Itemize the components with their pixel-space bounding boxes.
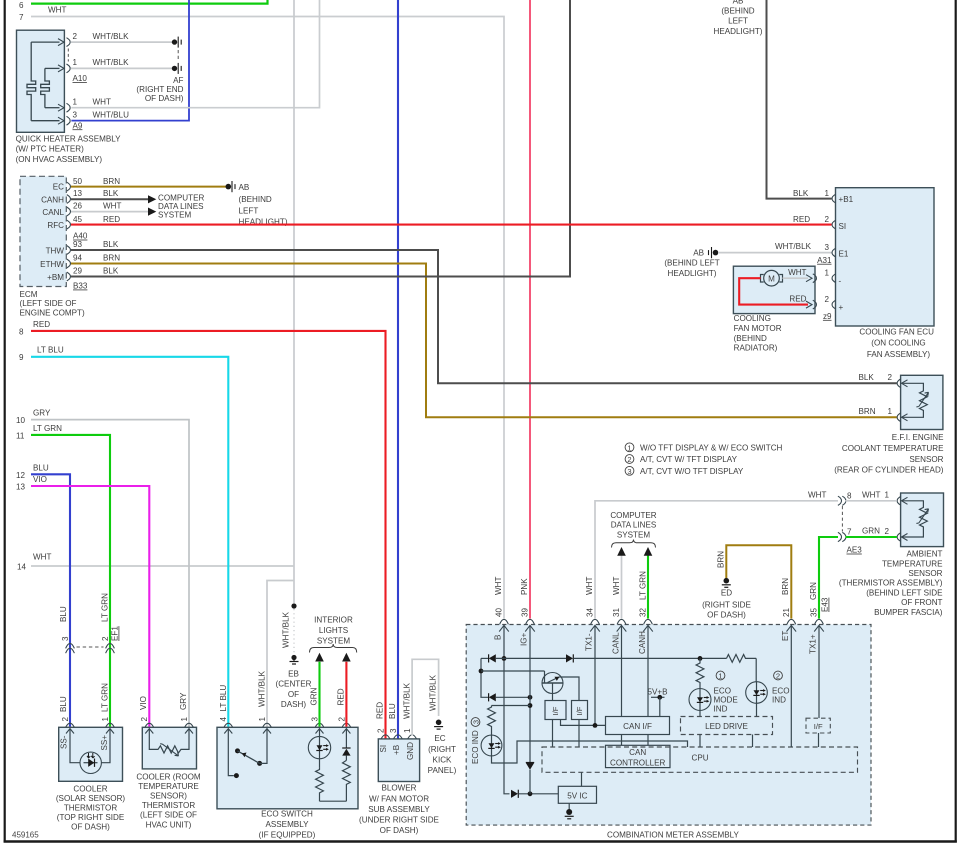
svg-text:WHT: WHT <box>585 577 594 595</box>
svg-text:EF1: EF1 <box>111 626 120 641</box>
svg-text:CANL: CANL <box>611 632 620 654</box>
svg-text:MODE: MODE <box>714 696 739 705</box>
wire 7 WHT (row 7, to combination meter pin 40) <box>19 6 504 619</box>
svg-text:1: 1 <box>101 717 110 722</box>
svg-text:7: 7 <box>847 528 852 537</box>
splice AF lower (WHT/BLK) <box>136 50 183 103</box>
ECO switch assembly box <box>217 727 358 839</box>
meter internal: I/F box 1 <box>545 701 606 748</box>
svg-text:(ON HVAC ASSEMBLY): (ON HVAC ASSEMBLY) <box>16 155 103 164</box>
splice AB (BEHIND LEFT HEADLIGHT) <box>226 181 288 227</box>
svg-text:3: 3 <box>73 110 78 119</box>
svg-text:ECO SWITCH: ECO SWITCH <box>261 809 313 818</box>
svg-text:FAN MOTOR: FAN MOTOR <box>734 324 782 333</box>
svg-text:(UNDER RIGHT SIDE: (UNDER RIGHT SIDE <box>359 816 439 825</box>
svg-text:ETHW: ETHW <box>40 260 64 269</box>
note 3 A/T CVT W/O TFT DISPLAY <box>625 466 744 476</box>
svg-text:TEMPERATURE: TEMPERATURE <box>138 782 199 791</box>
svg-text:2: 2 <box>627 455 631 464</box>
wire 12 BLU (row 12, to EF1 pin 3 / cooler SS-) <box>16 463 70 726</box>
svg-text:BLU: BLU <box>33 463 49 472</box>
svg-text:GRY: GRY <box>179 692 188 710</box>
splice AB near E1 <box>664 247 719 278</box>
ECM pin CANH 13 <box>41 189 148 204</box>
svg-text:SI: SI <box>839 222 847 231</box>
svg-text:B: B <box>494 635 503 640</box>
svg-text:BLK: BLK <box>103 267 119 276</box>
svg-text:-: - <box>839 276 842 285</box>
svg-text:INTERIOR: INTERIOR <box>314 615 353 624</box>
meter pin 32 CANH <box>638 607 653 654</box>
svg-text:5V+B: 5V+B <box>648 687 668 696</box>
svg-text:OF DASH): OF DASH) <box>145 94 184 103</box>
ECU pin 2 SI <box>793 215 846 231</box>
svg-text:THW: THW <box>46 246 65 255</box>
coolant sensor pins <box>859 373 908 422</box>
svg-text:2: 2 <box>887 373 892 382</box>
motor M symbol <box>761 270 783 286</box>
svg-text:HVAC UNIT): HVAC UNIT) <box>146 820 192 829</box>
svg-text:CAN: CAN <box>629 748 646 757</box>
meter internal: CANL/CANH verticals into CAN I/F <box>622 626 649 746</box>
cooler pin 2 SS- <box>60 717 75 750</box>
ground EB (CENTER OF DASH) <box>276 611 312 709</box>
svg-text:OF FRONT: OF FRONT <box>901 598 942 607</box>
svg-text:QUICK HEATER ASSEMBLY: QUICK HEATER ASSEMBLY <box>16 134 122 143</box>
svg-text:BUMPER FASCIA): BUMPER FASCIA) <box>874 608 943 617</box>
svg-text:SYSTEM: SYSTEM <box>617 530 651 539</box>
svg-text:ECM: ECM <box>20 290 38 299</box>
room sensor pin 2 (VIO) <box>139 696 153 733</box>
wire BLK THW to coolant temp sensor pin 2 <box>71 250 897 383</box>
inline connector AE3 pin 7 + GRN wire to meter pin 35 <box>819 528 897 619</box>
svg-text:1: 1 <box>824 189 829 198</box>
svg-text:2: 2 <box>337 717 346 722</box>
svg-text:OF DASH): OF DASH) <box>380 826 419 835</box>
svg-text:(SOLAR SENSOR): (SOLAR SENSOR) <box>56 794 126 803</box>
svg-text:OF DASH): OF DASH) <box>71 823 110 832</box>
note 2 A/T CVT W/ TFT DISPLAY <box>625 455 737 465</box>
svg-text:(REAR OF CYLINDER HEAD): (REAR OF CYLINDER HEAD) <box>834 466 944 475</box>
svg-text:BLK: BLK <box>793 189 809 198</box>
svg-text:50: 50 <box>73 177 83 186</box>
svg-text:W/ FAN MOTOR: W/ FAN MOTOR <box>369 794 429 803</box>
pin 3 connector arc (A9) <box>67 110 130 130</box>
svg-text:WHT/BLK: WHT/BLK <box>775 242 812 251</box>
svg-text:GRY: GRY <box>33 409 51 418</box>
wire GRN from ECO pin 3 to interior lights arrow <box>315 653 324 727</box>
E.F.I. engine coolant temperature sensor box <box>834 375 944 474</box>
quick heater assembly label <box>16 134 122 163</box>
meter pin 21 ET <box>781 578 796 641</box>
svg-text:3: 3 <box>61 636 70 641</box>
svg-text:34: 34 <box>586 607 595 617</box>
svg-text:COOLANT TEMPERATURE: COOLANT TEMPERATURE <box>842 444 944 453</box>
meter internal: ECO IND 3 resistor <box>488 706 530 736</box>
svg-text:RADIATOR): RADIATOR) <box>734 344 778 353</box>
svg-text:26: 26 <box>73 202 83 211</box>
svg-text:I/F: I/F <box>814 722 823 731</box>
blower pin 2 SI <box>376 702 390 753</box>
blower w/ fan motor sub assembly box <box>359 739 439 835</box>
svg-text:1: 1 <box>824 268 829 277</box>
svg-text:LT GRN: LT GRN <box>33 424 62 433</box>
svg-text:BRN: BRN <box>859 407 876 416</box>
svg-text:RED: RED <box>376 702 385 719</box>
svg-text:35: 35 <box>810 607 819 617</box>
svg-text:OF DASH): OF DASH) <box>707 611 746 620</box>
svg-text:WHT: WHT <box>788 268 806 277</box>
wire 10 GRY (row 10, to room temp sensor pin 1) <box>16 409 189 727</box>
svg-text:GND: GND <box>406 742 415 760</box>
svg-text:93: 93 <box>73 240 83 249</box>
svg-text:COOLER (ROOM: COOLER (ROOM <box>136 772 201 781</box>
svg-text:4: 4 <box>219 717 228 722</box>
svg-text:32: 32 <box>639 607 648 617</box>
wire RED from RFC to cooling fan ECU SI <box>71 224 832 226</box>
svg-text:DASH): DASH) <box>281 700 306 709</box>
svg-text:94: 94 <box>73 254 83 263</box>
svg-text:AE3: AE3 <box>847 546 863 555</box>
svg-text:3: 3 <box>472 720 481 724</box>
svg-text:HEADLIGHT): HEADLIGHT) <box>667 269 716 278</box>
quick heater assembly box <box>17 30 65 132</box>
svg-text:2: 2 <box>73 32 78 41</box>
inline connector AE3 pin 8 <box>838 491 897 531</box>
wire 13 VIO (row 13, to room temp sensor pin 2) <box>16 475 149 727</box>
svg-text:8: 8 <box>19 328 24 337</box>
wire RED from ECO pin 2 to interior lights arrow <box>342 653 351 727</box>
svg-text:COOLER: COOLER <box>73 784 107 793</box>
PTC heater element 1 <box>27 42 36 121</box>
svg-text:IND: IND <box>772 696 786 705</box>
svg-text:WHT: WHT <box>48 6 66 15</box>
svg-text:2: 2 <box>776 672 780 681</box>
motor WHT wire to ECU minus pin <box>783 268 842 285</box>
svg-text:14: 14 <box>17 562 27 571</box>
svg-text:AMBIENT: AMBIENT <box>907 550 943 559</box>
svg-text:13: 13 <box>73 189 83 198</box>
svg-text:2: 2 <box>61 717 70 722</box>
svg-text:VIO: VIO <box>139 696 148 710</box>
svg-text:7: 7 <box>19 13 24 22</box>
svg-text:WHT: WHT <box>808 490 826 499</box>
svg-text:WHT/BLK: WHT/BLK <box>93 58 130 67</box>
svg-text:31: 31 <box>612 607 621 617</box>
svg-text:A/T, CVT W/O TFT DISPLAY: A/T, CVT W/O TFT DISPLAY <box>640 467 744 476</box>
wire WHT/BLK blower GND to EC ground <box>412 659 439 735</box>
meter pin 40 B <box>494 577 509 640</box>
svg-text:I/F: I/F <box>551 706 560 715</box>
svg-text:AB: AB <box>239 183 250 192</box>
svg-text:(RIGHT: (RIGHT <box>428 745 456 754</box>
blower pin 3 +B <box>388 703 402 755</box>
ECO pin 4 (LT BLU) <box>219 685 233 734</box>
svg-text:3: 3 <box>310 717 319 722</box>
svg-text:LT GRN: LT GRN <box>638 571 647 600</box>
meter pin 34 TX1- <box>585 577 600 651</box>
svg-text:WHT/BLK: WHT/BLK <box>428 674 437 711</box>
svg-text:BRN: BRN <box>103 177 120 186</box>
svg-text:CANH: CANH <box>638 631 647 654</box>
svg-text:PNK: PNK <box>520 578 529 595</box>
svg-text:FAN ASSEMBLY): FAN ASSEMBLY) <box>867 350 931 359</box>
svg-text:ECO IND: ECO IND <box>471 730 480 764</box>
meter pin 31 CANL <box>611 607 626 654</box>
svg-text:z9: z9 <box>823 312 832 321</box>
wire BRN from EC to splice AB <box>71 186 226 188</box>
cooler pin 1 SS+ <box>100 717 114 751</box>
meter internal: transistor <box>542 673 579 701</box>
cooling fan ECU box <box>836 188 935 359</box>
ECO pin 2 (RED) <box>336 688 350 733</box>
combination meter assembly box <box>466 625 871 840</box>
svg-text:9: 9 <box>19 353 24 362</box>
svg-text:A/T, CVT W/ TFT DISPLAY: A/T, CVT W/ TFT DISPLAY <box>640 455 738 464</box>
svg-text:(BEHIND LEFT SIDE: (BEHIND LEFT SIDE <box>866 588 943 597</box>
wire BLK +BM up at x=570 to page top <box>71 0 570 277</box>
svg-text:AB: AB <box>733 0 744 6</box>
svg-text:RED: RED <box>103 215 120 224</box>
svg-text:LT GRN: LT GRN <box>101 683 110 712</box>
svg-text:1: 1 <box>73 58 78 67</box>
meter internal: CAN CONTROLLER box <box>606 745 671 767</box>
svg-text:EC: EC <box>434 734 445 743</box>
coolant sensor thermistor <box>902 383 929 417</box>
svg-text:OF: OF <box>288 690 299 699</box>
svg-text:1: 1 <box>627 443 631 452</box>
svg-text:LED DRIVE: LED DRIVE <box>705 722 748 731</box>
meter internal: TX1- vertical to CAN I/F junction <box>593 626 598 728</box>
ECO pin 1 (WHT/BLK) <box>258 670 272 733</box>
svg-text:LEFT: LEFT <box>239 206 259 215</box>
svg-text:BLK: BLK <box>859 373 875 382</box>
ECO switch contacts <box>228 729 267 779</box>
svg-text:A9: A9 <box>73 121 83 130</box>
ambient temperature sensor box <box>839 493 944 617</box>
svg-text:13: 13 <box>16 483 26 492</box>
svg-text:11: 11 <box>16 431 25 440</box>
ECM pin EC 50 <box>53 177 120 192</box>
meter internal: left branch to transistor base and diode to IG+ <box>479 658 545 701</box>
svg-text:A31: A31 <box>817 256 832 265</box>
svg-text:B33: B33 <box>73 282 88 291</box>
svg-text:E43: E43 <box>821 597 830 612</box>
svg-text:45: 45 <box>73 215 83 224</box>
svg-text:ASSEMBLY: ASSEMBLY <box>265 820 309 829</box>
pin 1 connector arc (A10) <box>67 49 130 84</box>
svg-text:BLU: BLU <box>59 696 68 712</box>
svg-text:SUB ASSEMBLY: SUB ASSEMBLY <box>368 805 430 814</box>
meter internal: ECO IND 3 LED bottom path to CPU rail <box>492 741 688 763</box>
svg-text:DATA LINES: DATA LINES <box>611 521 657 530</box>
svg-text:(W/ PTC HEATER): (W/ PTC HEATER) <box>16 145 84 154</box>
meter internal: CPU dashed box <box>542 747 858 772</box>
svg-text:WHT/BLK: WHT/BLK <box>282 611 291 648</box>
inline connector EF1 pin 2 (LT GRN) <box>77 593 120 712</box>
svg-text:KICK: KICK <box>433 755 452 764</box>
svg-text:WHT: WHT <box>612 577 621 595</box>
meter internal: ET vertical to CPU <box>790 626 792 747</box>
meter internal: ECO MODE IND resistor + LED <box>689 656 738 717</box>
svg-text:ECO: ECO <box>714 687 732 696</box>
ground ED (RIGHT SIDE OF DASH) + BRN wire to meter pin 21 <box>702 545 791 619</box>
svg-text:(BEHIND: (BEHIND <box>734 334 767 343</box>
svg-text:WHT: WHT <box>494 577 503 595</box>
ambient sensor thermistor <box>902 501 929 537</box>
svg-text:IG+: IG+ <box>520 632 529 646</box>
svg-text:(BEHIND: (BEHIND <box>239 195 272 204</box>
svg-text:SENSOR): SENSOR) <box>150 792 187 801</box>
svg-text:HEADLIGHT): HEADLIGHT) <box>713 27 762 36</box>
svg-text:BLU: BLU <box>59 606 68 622</box>
svg-text:BRN: BRN <box>781 578 790 595</box>
svg-text:40: 40 <box>495 607 504 617</box>
svg-text:(THERMISTOR ASSEMBLY): (THERMISTOR ASSEMBLY) <box>839 579 943 588</box>
svg-text:WHT/BLK: WHT/BLK <box>402 682 411 719</box>
svg-text:(CENTER: (CENTER <box>276 680 312 689</box>
svg-text:(LEFT SIDE OF: (LEFT SIDE OF <box>140 811 197 820</box>
svg-text:2: 2 <box>824 215 829 224</box>
svg-text:+: + <box>839 303 844 312</box>
meter internal: diode B to 5VIC <box>511 790 558 798</box>
svg-text:3: 3 <box>824 243 829 252</box>
ECU pin 1 +B1 <box>793 189 854 204</box>
svg-text:EB: EB <box>288 669 299 678</box>
svg-text:A10: A10 <box>73 74 88 83</box>
pin 1 connector arc (A9) <box>67 97 111 112</box>
svg-text:8: 8 <box>847 491 852 500</box>
wire WHT from meter TX1- to AE3 pin 8 <box>595 490 838 618</box>
svg-text:(IF EQUIPPED): (IF EQUIPPED) <box>259 831 316 840</box>
meter internal: diode on IG+ vertical <box>526 763 534 794</box>
svg-text:WHT: WHT <box>93 97 111 106</box>
svg-text:COMBINATION METER ASSEMBLY: COMBINATION METER ASSEMBLY <box>607 830 740 839</box>
splice AF upper (WHT/BLK) <box>172 37 181 48</box>
wire BRN ETHW to coolant temp sensor pin 1 <box>71 264 897 418</box>
svg-text:CPU: CPU <box>692 754 709 763</box>
meter internal: line A with diodes <box>481 654 727 662</box>
svg-text:1: 1 <box>180 717 189 722</box>
cooler (solar sensor) thermistor box <box>56 727 126 831</box>
wire PNK vertical from top to meter pin 39 <box>529 0 531 619</box>
svg-text:BRN: BRN <box>103 254 120 263</box>
svg-text:SS+: SS+ <box>100 735 109 751</box>
svg-text:THERMISTOR: THERMISTOR <box>142 801 196 810</box>
room sensor thermistor <box>149 729 189 756</box>
svg-text:BLU: BLU <box>388 703 397 719</box>
svg-text:RFC: RFC <box>47 221 64 230</box>
meter internal: B line vertical pin40 down <box>502 626 510 794</box>
svg-text:RED: RED <box>336 688 345 705</box>
svg-text:(BEHIND LEFT: (BEHIND LEFT <box>664 258 719 267</box>
meter internal: IG+ vertical pin39 down <box>528 626 533 762</box>
svg-text:6: 6 <box>19 1 24 10</box>
ECO resistor (pin 3 branch) <box>316 767 324 801</box>
svg-text:WHT: WHT <box>103 202 121 211</box>
svg-text:RED: RED <box>793 215 810 224</box>
ECM connector dashed box <box>20 176 86 317</box>
meter internal: ground under 5V IC <box>565 803 574 819</box>
svg-text:ENGINE COMPT): ENGINE COMPT) <box>20 308 86 317</box>
svg-text:+BM: +BM <box>47 273 64 282</box>
svg-text:(BEHIND: (BEHIND <box>721 7 754 16</box>
svg-text:TX1+: TX1+ <box>809 634 818 654</box>
svg-text:E.F.I. ENGINE: E.F.I. ENGINE <box>892 433 944 442</box>
svg-text:RED: RED <box>789 295 806 304</box>
svg-text:1: 1 <box>258 717 267 722</box>
svg-text:(RIGHT SIDE: (RIGHT SIDE <box>702 600 751 609</box>
inline connector EF1 pin 3 (BLU) <box>59 606 75 712</box>
svg-text:+B: +B <box>392 745 401 755</box>
meter internal: LED DRIVE dashed box <box>681 717 773 748</box>
svg-text:(ON COOLING: (ON COOLING <box>871 339 925 348</box>
svg-text:3: 3 <box>389 728 398 733</box>
meter pin 35 TX1+ <box>809 582 830 654</box>
splice EB ring terminal dot <box>291 603 296 654</box>
svg-text:BLOWER: BLOWER <box>381 784 416 793</box>
svg-text:(TOP RIGHT SIDE: (TOP RIGHT SIDE <box>57 813 125 822</box>
svg-text:1: 1 <box>884 491 889 500</box>
wire 6 LT GRN (row 6, turns up at x=267.5) <box>19 0 268 10</box>
svg-text:3: 3 <box>627 467 631 476</box>
blower pin 1 GND <box>402 682 416 760</box>
svg-text:SENSOR: SENSOR <box>909 455 943 464</box>
svg-text:BLK: BLK <box>103 240 119 249</box>
svg-text:ECO: ECO <box>772 687 790 696</box>
svg-text:BLK: BLK <box>103 189 119 198</box>
ECO resistor (pin 2 branch) <box>320 760 351 801</box>
wire 9 LT BLU (row 9, to ECO switch pin 4) <box>19 346 228 727</box>
svg-text:1: 1 <box>403 728 412 733</box>
wire WHT/BLU vertical from top to quick heater pin 3 <box>71 0 189 121</box>
meter internal: 5V IC box <box>558 772 596 803</box>
computer data lines system label + brace + arrows (meter side) <box>610 511 657 548</box>
svg-text:M: M <box>768 275 775 284</box>
ECM pin ETHW 94 <box>40 254 120 269</box>
computer data lines system arrows (ECM side) <box>148 193 204 219</box>
ECM pin CANL 26 <box>42 202 148 217</box>
svg-text:SS-: SS- <box>60 735 69 749</box>
svg-text:TX1-: TX1- <box>585 633 594 651</box>
svg-text:AF: AF <box>173 76 183 85</box>
pin 2 connector arc (A10) <box>67 32 130 47</box>
svg-text:SI: SI <box>379 745 388 753</box>
svg-text:SENSOR: SENSOR <box>908 569 942 578</box>
svg-text:1: 1 <box>73 97 78 106</box>
svg-text:RED: RED <box>33 320 50 329</box>
svg-text:IND: IND <box>714 705 728 714</box>
quick heater internal wires to pins <box>31 39 64 125</box>
svg-text:AB: AB <box>693 249 704 258</box>
svg-text:CANH: CANH <box>41 195 64 204</box>
ground EC (RIGHT KICK PANEL) <box>428 720 457 776</box>
ECO diode (pin 2 branch) <box>342 729 350 761</box>
svg-text:1: 1 <box>887 407 892 416</box>
svg-text:COOLING FAN ECU: COOLING FAN ECU <box>859 327 934 336</box>
svg-text:COOLING: COOLING <box>734 314 771 323</box>
svg-text:CANL: CANL <box>42 208 64 217</box>
wire WHT/BLK splice AB to ECU E1 <box>718 242 849 265</box>
interior lights system label + brace + arrows <box>310 615 357 652</box>
svg-text:CAN I/F: CAN I/F <box>623 722 652 731</box>
note 1 W/O TFT DISPLAY <box>625 443 782 453</box>
svg-text:21: 21 <box>782 607 791 617</box>
svg-text:5V IC: 5V IC <box>567 791 587 800</box>
svg-text:WHT: WHT <box>33 552 51 561</box>
wire 8 RED (row 8, to blower SI) <box>19 320 386 738</box>
svg-text:LT BLU: LT BLU <box>219 685 228 712</box>
